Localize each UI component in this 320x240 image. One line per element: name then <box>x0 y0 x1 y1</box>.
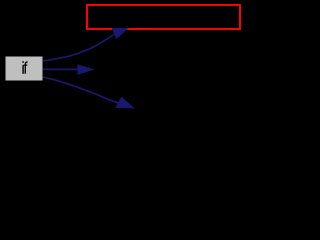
wire: curved edge from node "if" up to red node <box>43 28 128 61</box>
node if <box>6 57 43 81</box>
label "if" drawn as vector glyphs <box>22 61 23 63</box>
wire: curved edge from node "if" down to hidden node <box>43 77 134 108</box>
node: current function (red outline box, black label invisible on black) <box>87 5 240 29</box>
wire: horizontal edge from node "if" to hidden node <box>43 65 93 74</box>
